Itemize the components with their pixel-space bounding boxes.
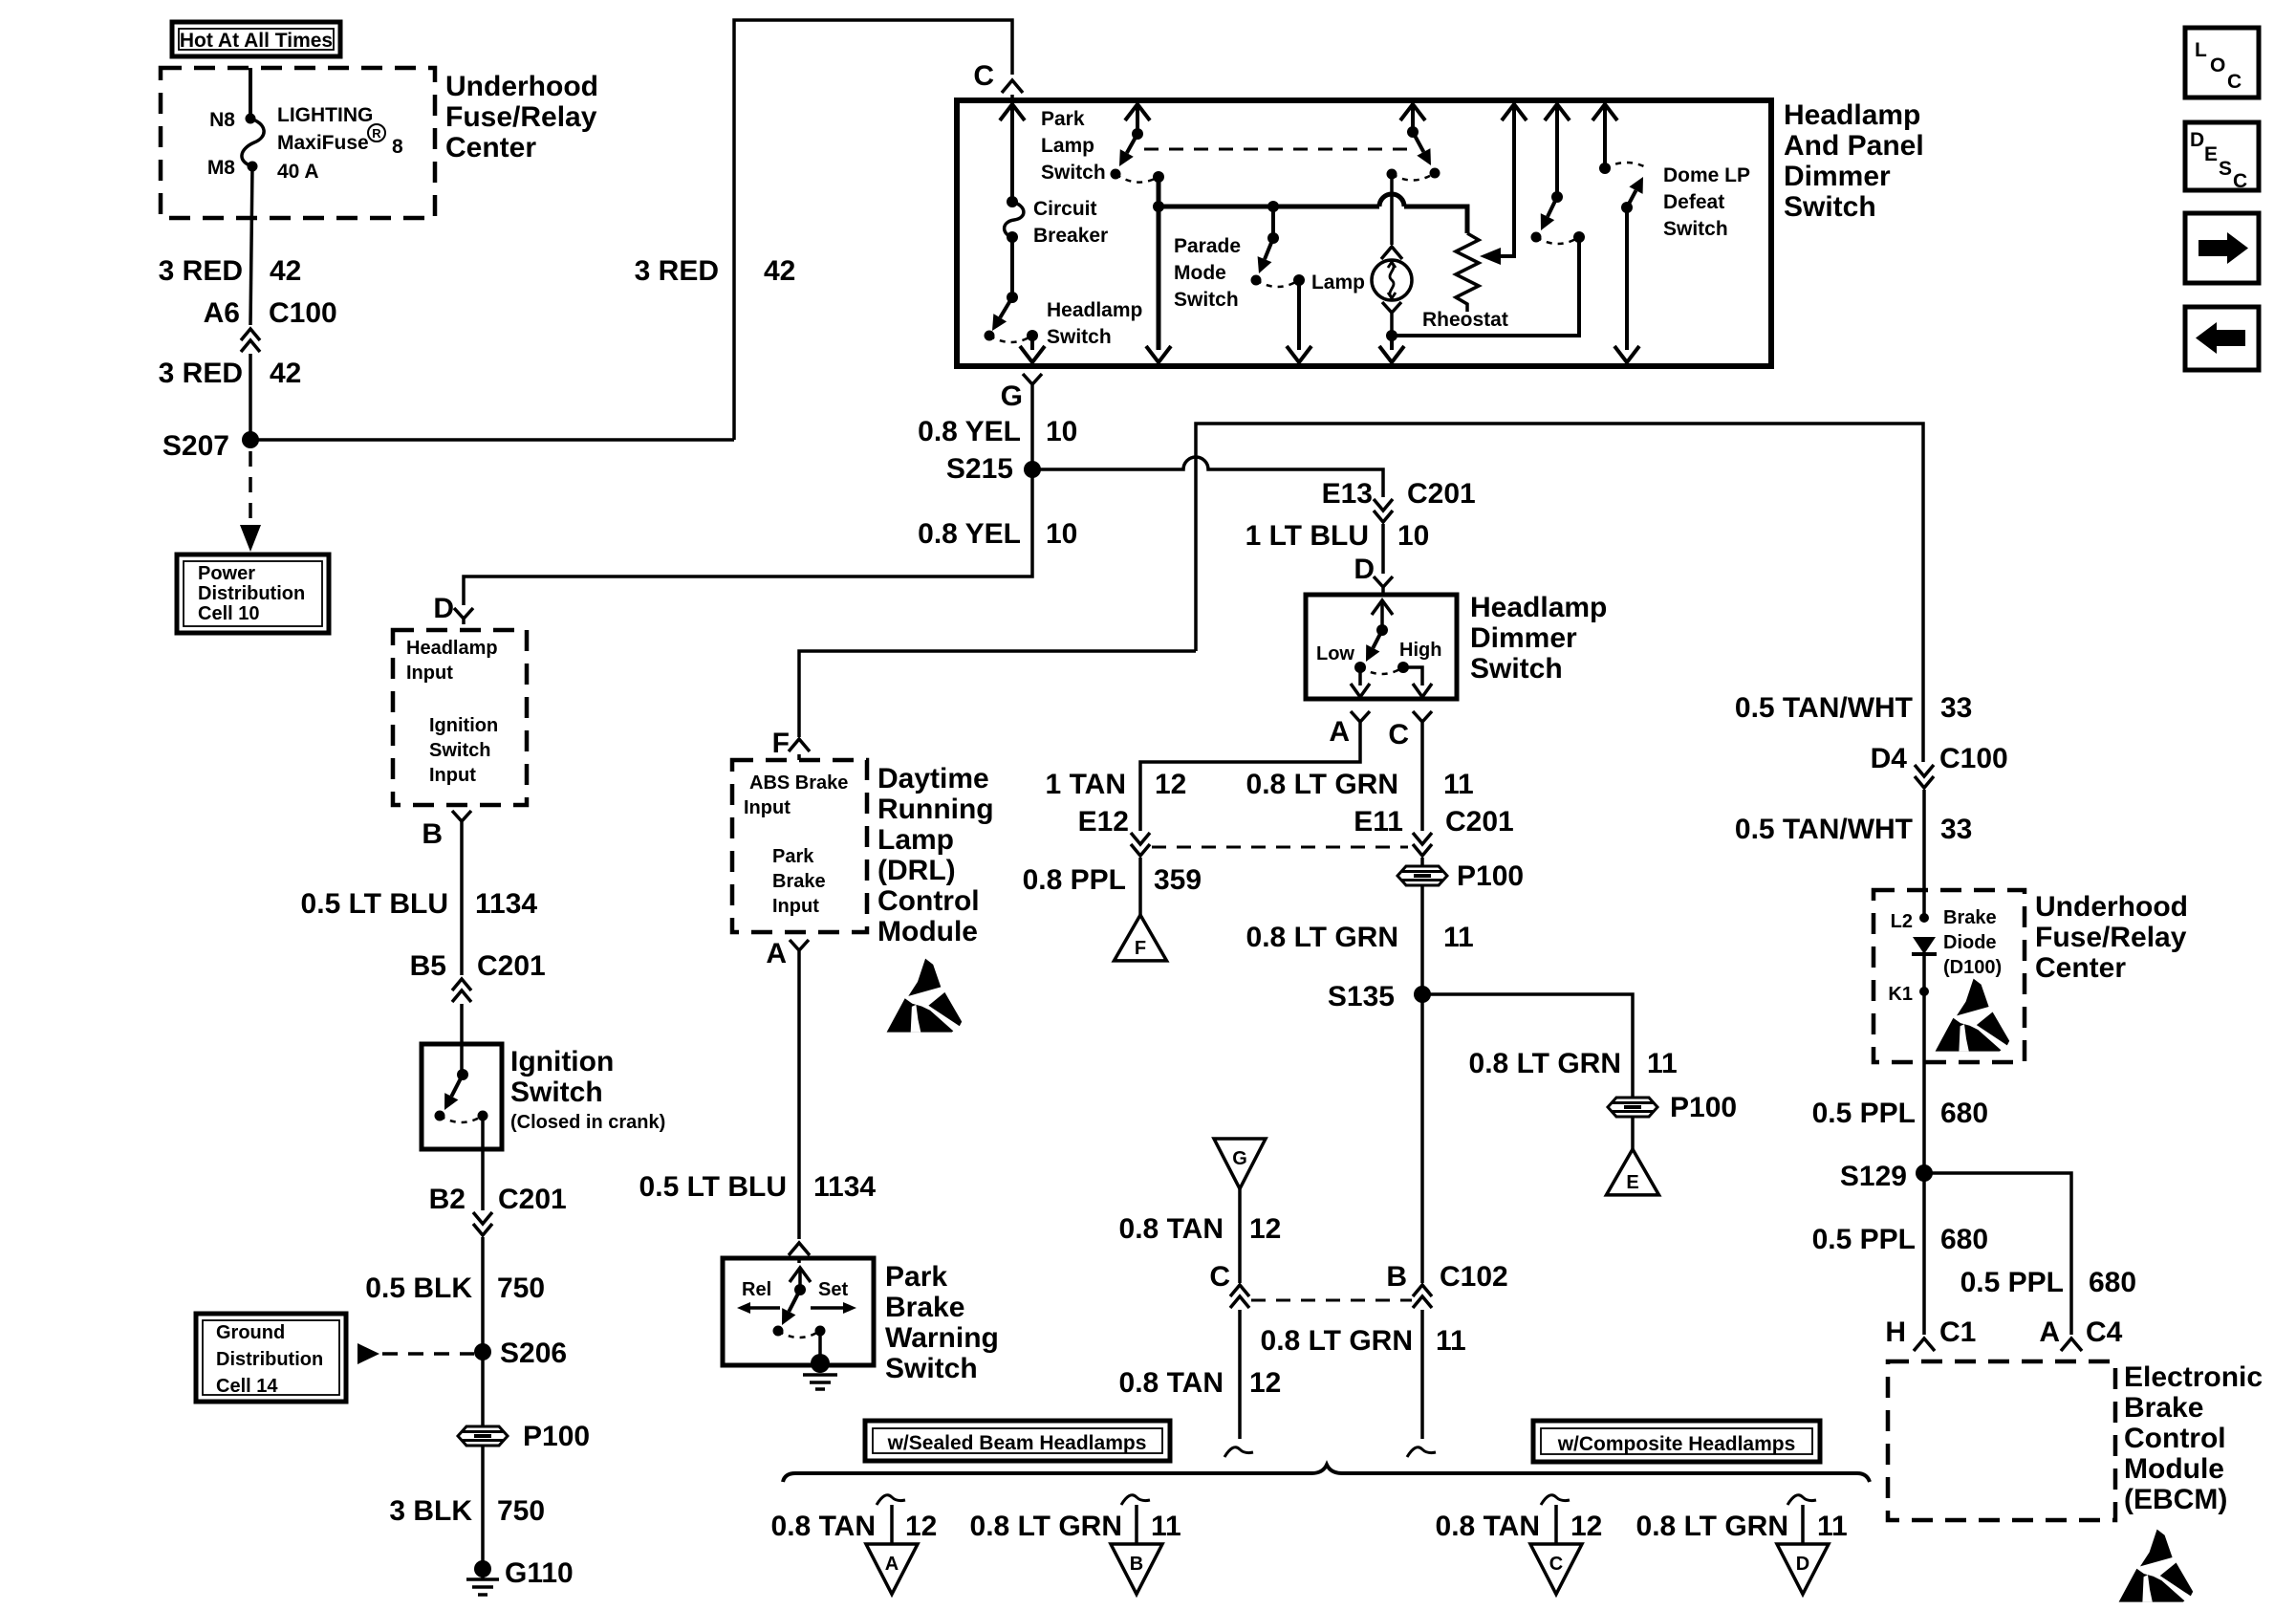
svg-text:42: 42 bbox=[270, 358, 301, 389]
arrow up rheostat wiper feed bbox=[1502, 104, 1527, 120]
svg-text:0.8 LT GRN: 0.8 LT GRN bbox=[1246, 922, 1398, 953]
wire B2 to S206 bbox=[481, 1237, 485, 1344]
circuit breaker element bbox=[1005, 202, 1024, 237]
curl end of high beam wire bbox=[1407, 1447, 1436, 1457]
headlamp switch dashed arc bbox=[989, 336, 1032, 342]
dimmer dashed arc bbox=[1360, 667, 1403, 674]
fuse LIGHTING MaxiFuse 8 element bbox=[242, 119, 264, 166]
dashed wire S207 down bbox=[249, 451, 252, 521]
svg-text:Center: Center bbox=[2035, 952, 2126, 984]
svg-text:0.8 PPL: 0.8 PPL bbox=[1023, 864, 1126, 896]
svg-text:40 A: 40 A bbox=[277, 161, 319, 183]
svg-text:Headlamp: Headlamp bbox=[1047, 299, 1142, 321]
svg-text:S215: S215 bbox=[946, 453, 1013, 485]
circuit breaker bottom dot bbox=[1007, 231, 1018, 243]
ignition dashed arc bbox=[440, 1116, 483, 1122]
svg-text:12: 12 bbox=[1155, 769, 1186, 800]
svg-text:Brake: Brake bbox=[885, 1292, 964, 1323]
svg-text:0.8 YEL: 0.8 YEL bbox=[918, 416, 1021, 447]
svg-text:3 BLK: 3 BLK bbox=[389, 1495, 472, 1527]
svg-text:0.5 PPL: 0.5 PPL bbox=[1812, 1224, 1916, 1255]
connector C201 chevrons (E13) bbox=[1374, 499, 1393, 522]
box Ground Distribution Cell 14 bbox=[196, 1314, 346, 1402]
svg-text:C201: C201 bbox=[1445, 806, 1514, 838]
composite low output C wire bbox=[1554, 1505, 1558, 1544]
svg-text:Underhood: Underhood bbox=[445, 71, 598, 102]
arrow down at box bottom bbox=[1287, 346, 1311, 362]
registered mark bbox=[368, 124, 385, 141]
svg-text:Distribution: Distribution bbox=[198, 583, 305, 604]
sealed beam low output A triangle A bbox=[866, 1544, 918, 1594]
svg-text:Input: Input bbox=[772, 896, 819, 917]
svg-text:3 RED: 3 RED bbox=[159, 358, 243, 389]
svg-text:K1: K1 bbox=[1888, 984, 1913, 1005]
splice S207 bbox=[242, 431, 259, 448]
svg-text:Switch: Switch bbox=[1663, 218, 1728, 240]
svg-text:L: L bbox=[2195, 39, 2207, 61]
svg-text:Headlamp: Headlamp bbox=[406, 638, 498, 659]
svg-text:F: F bbox=[772, 728, 790, 759]
svg-text:0.8 LT GRN: 0.8 LT GRN bbox=[1636, 1511, 1788, 1542]
wire P100 to S135 bbox=[1420, 885, 1424, 1283]
wire P100 to G110 bbox=[481, 1446, 485, 1562]
svg-text:B: B bbox=[1386, 1261, 1407, 1293]
nav box back arrow bbox=[2185, 307, 2259, 370]
dimmer high arrow down bbox=[1413, 684, 1432, 697]
svg-text:0.5 LT BLU: 0.5 LT BLU bbox=[639, 1171, 787, 1203]
wire S129 right branch bbox=[1924, 1173, 2071, 1335]
svg-text:G: G bbox=[1232, 1148, 1247, 1169]
svg-text:C100: C100 bbox=[269, 297, 337, 329]
park lamp arm bbox=[1127, 134, 1137, 153]
sealed beam high output B triangle B bbox=[1111, 1544, 1162, 1594]
headlamp switch pivot bbox=[1007, 292, 1018, 303]
splice S135 bbox=[1414, 986, 1431, 1003]
arrow up park lamp right feed bbox=[1400, 104, 1425, 120]
svg-text:Distribution: Distribution bbox=[216, 1349, 323, 1370]
svg-text:E13: E13 bbox=[1322, 478, 1373, 510]
headlamp switch arm bbox=[1000, 297, 1012, 317]
ignition arm bbox=[451, 1075, 463, 1097]
nav box forward arrow bbox=[2185, 213, 2259, 283]
dimmer high out bbox=[1403, 667, 1422, 685]
svg-text:Lamp: Lamp bbox=[1041, 135, 1094, 157]
park brake ground wire bbox=[818, 1331, 822, 1358]
dimmer pivot bbox=[1376, 624, 1388, 636]
svg-text:Electronic: Electronic bbox=[2124, 1361, 2263, 1393]
svg-text:High: High bbox=[1399, 640, 1441, 661]
arrow from ground distribution bbox=[357, 1343, 379, 1364]
svg-text:Fuse/Relay: Fuse/Relay bbox=[2035, 922, 2187, 953]
wire riser to E13 line bbox=[1196, 424, 1923, 762]
svg-text:D: D bbox=[1354, 554, 1375, 585]
svg-text:Park: Park bbox=[885, 1261, 947, 1293]
svg-text:Parade: Parade bbox=[1174, 235, 1241, 257]
svg-text:S129: S129 bbox=[1840, 1161, 1907, 1192]
svg-text:Brake: Brake bbox=[2124, 1392, 2203, 1424]
svg-text:Input: Input bbox=[406, 663, 453, 684]
svg-text:Cell 10: Cell 10 bbox=[198, 603, 259, 624]
parade junction dot bbox=[1267, 201, 1279, 212]
svg-text:w/Sealed Beam Headlamps: w/Sealed Beam Headlamps bbox=[887, 1432, 1147, 1454]
svg-text:C4: C4 bbox=[2086, 1316, 2123, 1348]
connector G chevron bbox=[1023, 374, 1042, 390]
arrow up dome right feed bbox=[1592, 104, 1617, 120]
svg-text:Brake: Brake bbox=[1943, 907, 1997, 928]
wire E12 to F triangle bbox=[1138, 858, 1142, 915]
svg-text:O: O bbox=[2210, 54, 2225, 76]
composite low output C curl bbox=[1541, 1495, 1570, 1505]
wire to box bottom bbox=[1030, 336, 1034, 350]
dashed line C-B C102 bbox=[1251, 1299, 1412, 1302]
svg-text:680: 680 bbox=[1940, 1098, 1988, 1129]
pass-through grommet P100 (left) bbox=[458, 1426, 508, 1446]
fuse pin N8 dot bbox=[246, 114, 256, 124]
wire S206 to P100 bbox=[481, 1352, 485, 1426]
wire D into dimmer box bbox=[1381, 593, 1385, 595]
svg-text:0.5 BLK: 0.5 BLK bbox=[365, 1273, 472, 1304]
svg-text:E: E bbox=[2204, 143, 2218, 165]
svg-text:3 RED: 3 RED bbox=[635, 255, 719, 287]
ignition output bbox=[481, 1116, 485, 1210]
svg-text:1 LT BLU: 1 LT BLU bbox=[1245, 520, 1369, 552]
svg-text:Diode: Diode bbox=[1943, 932, 1997, 953]
dome right upper contact bbox=[1599, 163, 1611, 174]
bus hop over lamp wire bbox=[1379, 194, 1404, 207]
nav box LOC bbox=[2185, 28, 2259, 98]
dome contact bbox=[1531, 232, 1542, 243]
svg-text:Rheostat: Rheostat bbox=[1422, 309, 1508, 331]
park lamp pivot bbox=[1132, 128, 1143, 140]
svg-text:Warning: Warning bbox=[885, 1322, 999, 1354]
wire G to S215 bbox=[1030, 390, 1034, 462]
svg-text:680: 680 bbox=[2089, 1267, 2136, 1298]
splice S129 bbox=[1916, 1164, 1933, 1182]
svg-text:Rel: Rel bbox=[742, 1279, 771, 1300]
connector B chevron bbox=[452, 811, 471, 827]
connector D chevron bbox=[454, 608, 473, 624]
label box 'Hot At All Times' bbox=[172, 22, 340, 56]
svg-text:R: R bbox=[372, 126, 381, 141]
svg-text:M8: M8 bbox=[207, 157, 235, 179]
svg-text:Defeat: Defeat bbox=[1663, 191, 1724, 213]
connector F chevron bbox=[789, 739, 810, 751]
svg-text:11: 11 bbox=[1647, 1048, 1678, 1079]
svg-text:0.8 LT GRN: 0.8 LT GRN bbox=[1469, 1048, 1621, 1079]
ignition feed bbox=[460, 1044, 464, 1075]
svg-text:Dimmer: Dimmer bbox=[1784, 161, 1891, 192]
svg-text:C: C bbox=[2233, 170, 2247, 192]
connector C102 chevrons (B) bbox=[1413, 1285, 1432, 1308]
svg-text:Mode: Mode bbox=[1174, 262, 1226, 284]
wire S207 to right riser bbox=[250, 438, 734, 442]
wire K1 to S129 bbox=[1922, 991, 1926, 1335]
svg-text:Control: Control bbox=[2124, 1423, 2226, 1454]
arrow down at box bottom bbox=[1614, 346, 1639, 362]
wire C to E11 bbox=[1420, 728, 1424, 831]
wire S135 right branch bbox=[1422, 994, 1633, 1097]
parade output dot bbox=[1293, 274, 1305, 286]
arrow up park lamp feed bbox=[1125, 104, 1150, 120]
svg-text:0.8 TAN: 0.8 TAN bbox=[1436, 1511, 1540, 1542]
park brake pivot bbox=[794, 1284, 806, 1295]
arrow to power distribution bbox=[240, 525, 261, 552]
svg-text:LIGHTING: LIGHTING bbox=[277, 104, 373, 126]
svg-text:Lamp: Lamp bbox=[1311, 272, 1365, 294]
arrow up inside park brake box bbox=[790, 1268, 811, 1282]
connector C chevron bbox=[1002, 80, 1023, 93]
wire P100 to E triangle bbox=[1631, 1117, 1635, 1149]
brace over headlamp variants bbox=[783, 1465, 1870, 1482]
svg-text:A: A bbox=[2039, 1316, 2060, 1348]
label box w/Composite Headlamps bbox=[1533, 1421, 1820, 1462]
wire G triangle down bbox=[1238, 1188, 1242, 1283]
svg-text:0.8 TAN: 0.8 TAN bbox=[771, 1511, 876, 1542]
svg-text:Underhood: Underhood bbox=[2035, 891, 2188, 923]
circuit breaker top dot bbox=[1007, 196, 1018, 207]
daytime running lamp module dashed box bbox=[732, 760, 867, 932]
wiper arrow into rheostat bbox=[1480, 248, 1501, 265]
svg-text:Switch: Switch bbox=[510, 1077, 603, 1108]
svg-text:Fuse/Relay: Fuse/Relay bbox=[445, 101, 597, 133]
wire C201 to ignition switch bbox=[460, 1004, 464, 1044]
dimmer high contact bbox=[1397, 662, 1409, 673]
svg-text:Switch: Switch bbox=[885, 1353, 978, 1384]
wire fuse to A6 connector bbox=[250, 166, 252, 325]
svg-text:Running: Running bbox=[877, 794, 994, 825]
park lamp right dashed arc bbox=[1392, 173, 1435, 181]
svg-text:10: 10 bbox=[1046, 416, 1077, 447]
svg-text:C: C bbox=[1209, 1261, 1230, 1293]
svg-text:Daytime: Daytime bbox=[877, 763, 989, 794]
svg-text:Control: Control bbox=[877, 885, 980, 917]
headlamp switch contact bbox=[985, 331, 995, 341]
parade dashed arc bbox=[1256, 280, 1299, 287]
svg-text:B: B bbox=[1130, 1554, 1143, 1575]
svg-text:Switch: Switch bbox=[1784, 191, 1876, 223]
box Park Brake Warning Switch bbox=[723, 1258, 874, 1365]
wire F into DRL box bbox=[797, 754, 801, 760]
connector A chevron (dimmer) bbox=[1351, 711, 1370, 728]
svg-text:(DRL): (DRL) bbox=[877, 855, 956, 886]
wire headlamp feed bbox=[1010, 107, 1014, 202]
reference triangle E bbox=[1607, 1149, 1659, 1195]
svg-text:11: 11 bbox=[1436, 1325, 1466, 1357]
dome output down-left to lamp junction bbox=[1392, 237, 1579, 336]
connector C100 chevrons bbox=[241, 329, 260, 352]
svg-text:10: 10 bbox=[1046, 518, 1077, 550]
pin K1 dot bbox=[1919, 987, 1929, 996]
svg-text:1134: 1134 bbox=[813, 1171, 876, 1203]
dome pivot bbox=[1551, 191, 1563, 203]
svg-text:Switch: Switch bbox=[1047, 326, 1112, 348]
rel arrowhead bbox=[737, 1302, 750, 1314]
brake diode D100 bbox=[1912, 937, 1937, 954]
park brake contact right bbox=[815, 1326, 826, 1337]
park lamp right arm bbox=[1413, 132, 1423, 152]
wire park lamp feed bbox=[1136, 107, 1139, 134]
lamp to junction bbox=[1390, 318, 1394, 336]
svg-text:B2: B2 bbox=[429, 1184, 466, 1215]
svg-text:Module: Module bbox=[877, 916, 978, 947]
splice S215 bbox=[1024, 461, 1041, 478]
pin L2 dot bbox=[1919, 913, 1929, 923]
svg-text:0.5 PPL: 0.5 PPL bbox=[1960, 1267, 2064, 1298]
park lamp right pivot bbox=[1407, 126, 1419, 138]
connector C201 chevrons (B2) bbox=[473, 1212, 492, 1235]
svg-text:359: 359 bbox=[1154, 864, 1202, 896]
wire riser to top bbox=[734, 20, 1012, 440]
dome right pivot bbox=[1621, 202, 1633, 213]
svg-text:Headlamp: Headlamp bbox=[1784, 99, 1920, 131]
wire D4 to diode box bbox=[1922, 790, 1926, 918]
lamp junction dot bbox=[1386, 330, 1397, 341]
svg-text:C: C bbox=[2227, 71, 2242, 93]
svg-text:D: D bbox=[2190, 129, 2204, 151]
box Ignition Switch bbox=[422, 1044, 502, 1149]
dimmer low arrow down bbox=[1351, 684, 1370, 697]
dome dashed arc bbox=[1536, 237, 1579, 244]
park brake arm bbox=[789, 1290, 800, 1312]
arrow up to box top (headlamp feed) bbox=[1000, 104, 1025, 120]
svg-text:(D100): (D100) bbox=[1943, 957, 2002, 978]
parade output down bbox=[1297, 280, 1301, 350]
lamp feed contact bbox=[1387, 169, 1397, 180]
svg-text:0.8 TAN: 0.8 TAN bbox=[1119, 1367, 1224, 1399]
svg-text:12: 12 bbox=[1249, 1213, 1281, 1245]
park brake case ground dot bbox=[811, 1354, 830, 1373]
connector C1 chevron (H) bbox=[1914, 1338, 1935, 1351]
park brake dashed arc bbox=[778, 1331, 820, 1338]
svg-text:B5: B5 bbox=[410, 950, 446, 982]
connector C201 chevrons (E11) bbox=[1413, 833, 1432, 856]
svg-text:Breaker: Breaker bbox=[1033, 225, 1108, 247]
bus junction dot bbox=[1153, 201, 1164, 212]
box Power Distribution Cell 10 bbox=[177, 555, 329, 633]
park brake connector chevron bbox=[789, 1243, 810, 1255]
wire C C102 down bbox=[1238, 1310, 1242, 1439]
svg-text:680: 680 bbox=[1940, 1224, 1988, 1255]
dimmer low contact bbox=[1354, 662, 1366, 673]
lamp filament bbox=[1388, 262, 1396, 298]
svg-text:(Closed in crank): (Closed in crank) bbox=[510, 1112, 665, 1133]
svg-text:Ignition: Ignition bbox=[429, 715, 498, 736]
wire into fuse from box top bbox=[249, 68, 252, 119]
svg-text:D: D bbox=[1796, 1554, 1809, 1575]
svg-text:42: 42 bbox=[764, 255, 795, 287]
svg-text:Switch: Switch bbox=[1041, 162, 1106, 184]
svg-text:A: A bbox=[766, 938, 787, 969]
svg-text:Ignition: Ignition bbox=[510, 1046, 614, 1077]
svg-text:8: 8 bbox=[392, 136, 403, 158]
svg-text:L2: L2 bbox=[1891, 911, 1913, 932]
dome right feed bbox=[1603, 107, 1607, 168]
internal bus bbox=[1159, 205, 1379, 209]
svg-text:(EBCM): (EBCM) bbox=[2124, 1484, 2227, 1515]
svg-text:Cell 14: Cell 14 bbox=[216, 1376, 278, 1397]
svg-text:G: G bbox=[1001, 381, 1023, 412]
dome right arm bbox=[1627, 190, 1635, 207]
svg-text:11: 11 bbox=[1817, 1511, 1848, 1542]
svg-text:S207: S207 bbox=[162, 430, 229, 462]
headlamp switch output dot bbox=[1027, 330, 1038, 341]
svg-text:Low: Low bbox=[1316, 643, 1354, 664]
svg-text:0.8 YEL: 0.8 YEL bbox=[918, 518, 1021, 550]
ground G110 symbol bbox=[466, 1569, 499, 1595]
headlamp input dashed box bbox=[393, 630, 527, 805]
svg-text:E12: E12 bbox=[1078, 806, 1129, 838]
dome arm bbox=[1548, 197, 1557, 217]
wire diode to K1 bbox=[1922, 954, 1926, 991]
lamp feed wire bbox=[1390, 174, 1394, 245]
internal bus right + down to rheostat bbox=[1404, 207, 1467, 233]
svg-text:11: 11 bbox=[1443, 769, 1474, 800]
svg-text:0.5 PPL: 0.5 PPL bbox=[1812, 1098, 1916, 1129]
parade feed bbox=[1271, 207, 1275, 238]
svg-text:33: 33 bbox=[1940, 692, 1972, 724]
park brake feed bbox=[798, 1271, 802, 1290]
park lamp right contact bbox=[1430, 168, 1440, 179]
svg-text:3 RED: 3 RED bbox=[159, 255, 243, 287]
svg-text:Dome LP: Dome LP bbox=[1663, 164, 1750, 186]
nav box DESC bbox=[2185, 122, 2259, 192]
svg-text:10: 10 bbox=[1397, 520, 1429, 552]
svg-text:A: A bbox=[885, 1554, 899, 1575]
svg-text:C201: C201 bbox=[1407, 478, 1476, 510]
sealed beam high output B curl bbox=[1121, 1495, 1150, 1505]
svg-text:ABS Brake: ABS Brake bbox=[749, 772, 848, 794]
svg-text:MaxiFuse: MaxiFuse bbox=[277, 132, 369, 154]
rel arrow bbox=[748, 1306, 780, 1310]
junction down bbox=[1390, 336, 1394, 350]
svg-text:E11: E11 bbox=[1354, 806, 1403, 838]
electronic brake control module dashed box bbox=[1888, 1361, 2115, 1520]
esd symbol DRL bbox=[887, 959, 963, 1033]
connector C201 chevrons (E12) bbox=[1131, 833, 1150, 856]
composite high output D wire bbox=[1801, 1505, 1805, 1544]
rheostat zigzag bbox=[1456, 233, 1479, 312]
svg-text:G110: G110 bbox=[505, 1557, 574, 1589]
dome right down bbox=[1625, 207, 1629, 350]
svg-text:0.8 LT GRN: 0.8 LT GRN bbox=[970, 1511, 1122, 1542]
wire S215 right with hop bbox=[1032, 457, 1383, 497]
composite high output D curl bbox=[1787, 1495, 1816, 1505]
park lamp dashed arc bbox=[1116, 174, 1159, 183]
curl end of low beam wire bbox=[1224, 1447, 1253, 1457]
svg-text:Switch: Switch bbox=[429, 740, 490, 761]
svg-text:P100: P100 bbox=[523, 1421, 590, 1452]
svg-text:C102: C102 bbox=[1440, 1261, 1508, 1293]
dimmer feed bbox=[1380, 603, 1384, 630]
wire B to C201 bbox=[460, 827, 464, 975]
fuse pin M8 dot bbox=[248, 162, 258, 172]
svg-text:1134: 1134 bbox=[475, 888, 537, 920]
sealed beam low output A curl bbox=[877, 1495, 905, 1505]
svg-text:Center: Center bbox=[445, 132, 536, 163]
svg-text:0.5 LT BLU: 0.5 LT BLU bbox=[301, 888, 448, 920]
svg-text:S: S bbox=[2219, 158, 2232, 180]
park lamp output dot bbox=[1153, 171, 1164, 183]
svg-text:A: A bbox=[1329, 716, 1350, 748]
svg-text:H: H bbox=[1885, 1316, 1906, 1348]
svg-text:C201: C201 bbox=[477, 950, 546, 982]
arrow down at box bottom bbox=[1146, 346, 1171, 362]
svg-text:w/Composite Headlamps: w/Composite Headlamps bbox=[1557, 1433, 1796, 1455]
svg-text:S135: S135 bbox=[1328, 981, 1395, 1012]
connector A chevron (DRL) bbox=[790, 940, 809, 956]
parade contact bbox=[1251, 275, 1262, 286]
svg-text:Circuit: Circuit bbox=[1033, 198, 1097, 220]
